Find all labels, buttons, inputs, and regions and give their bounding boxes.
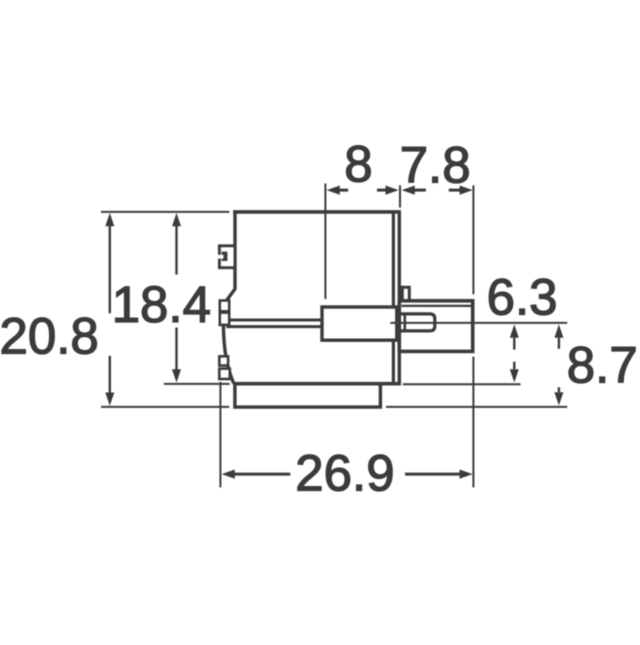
extension line x=473.4 for dim 7.8 — [472, 185, 474, 294]
svg-text:7.8: 7.8 — [400, 137, 471, 194]
extension line x=325.4 for dim 8 — [324, 184, 326, 300]
dim 8.7 arrows — [554, 324, 563, 405]
dim 8 right arrow — [377, 186, 399, 195]
extension line x=400 between dims 8 and 7.8 — [399, 185, 401, 207]
dim 26.9 line with arrows — [222, 470, 473, 479]
dim 7.8 left arrow — [402, 186, 426, 195]
svg-text:18.4: 18.4 — [112, 276, 211, 333]
extension line x=473.4 bottom right — [472, 357, 474, 488]
extension line y=384.2 right — [403, 383, 521, 385]
extension line x=220.4 bottom left — [219, 382, 221, 488]
inner contact block — [322, 307, 397, 340]
plug top bump — [402, 287, 409, 301]
extension line y=383.9 left — [164, 383, 230, 385]
svg-text:26.9: 26.9 — [295, 445, 394, 502]
svg-text:8.7: 8.7 — [567, 337, 638, 394]
dim 6.3 arrows — [510, 324, 519, 382]
contact pin — [399, 314, 435, 331]
pin centerline — [390, 322, 567, 324]
extension line y=211.9 left — [101, 211, 229, 213]
pin base line — [403, 314, 406, 331]
svg-text:20.8: 20.8 — [0, 308, 99, 365]
svg-text:6.3: 6.3 — [487, 268, 558, 325]
dim 20.8 vertical line with arrows — [105, 213, 114, 406]
dim 7.8 right arrow — [449, 186, 473, 195]
plug housing — [399, 301, 472, 352]
body top edge — [233, 210, 401, 214]
plug inner top wall — [402, 305, 472, 307]
body left edge with arc — [223, 211, 235, 384]
body front face line B — [398, 212, 401, 384]
latch notch 2 — [220, 301, 229, 325]
svg-text:8: 8 — [344, 136, 372, 193]
bottom flange — [235, 384, 381, 407]
latch notch 3 — [219, 356, 230, 379]
wire slot upper line — [226, 319, 321, 322]
dim 18.4 vertical line with arrows — [172, 213, 181, 383]
extension line y=406.9 left — [101, 406, 229, 408]
latch notch 1 — [218, 246, 236, 268]
dim 8 left arrow — [327, 186, 349, 195]
extension line y=406.9 right — [386, 406, 567, 408]
body front face line A — [392, 212, 395, 384]
body bottom edge — [233, 382, 401, 386]
wire slot lower line — [226, 325, 320, 328]
